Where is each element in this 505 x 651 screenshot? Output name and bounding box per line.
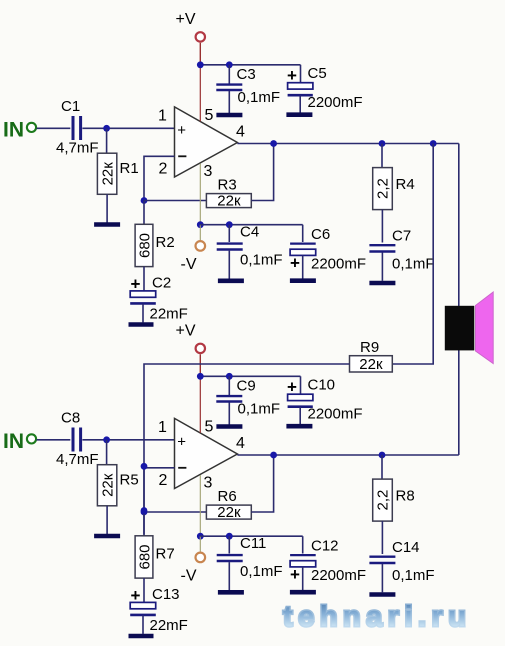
svg-text:R1: R1 [120,160,139,177]
svg-text:+V: +V [176,323,196,340]
svg-text:4,7mF: 4,7mF [56,140,99,157]
svg-text:-V: -V [181,568,197,585]
svg-text:C8: C8 [61,410,80,427]
svg-text:4: 4 [236,435,245,452]
svg-text:+: + [290,565,300,584]
svg-text:C1: C1 [61,98,80,115]
svg-text:4,7mF: 4,7mF [56,451,99,468]
svg-text:5: 5 [205,419,214,436]
svg-text:C4: C4 [240,224,259,241]
svg-text:C3: C3 [237,66,256,83]
svg-text:C10: C10 [308,376,336,393]
svg-text:C11: C11 [240,535,266,552]
svg-text:0,1mF: 0,1mF [238,89,281,106]
svg-text:0,1mF: 0,1mF [240,252,283,269]
svg-text:R2: R2 [156,234,175,251]
svg-text:tehnari.ru: tehnari.ru [283,601,467,633]
svg-text:R7: R7 [156,546,175,563]
svg-text:-V: -V [181,256,197,273]
svg-text:R8: R8 [396,488,415,505]
svg-text:2200mF: 2200mF [308,94,363,111]
svg-text:1: 1 [158,419,167,436]
svg-text:680: 680 [136,544,153,569]
svg-text:2,2: 2,2 [375,178,392,199]
svg-text:R5: R5 [120,472,139,489]
svg-text:22к: 22к [217,504,241,521]
svg-text:+: + [290,253,300,272]
svg-text:2200mF: 2200mF [311,567,366,584]
svg-text:680: 680 [136,233,153,258]
svg-text:IN: IN [3,430,24,453]
svg-text:C5: C5 [308,65,327,82]
svg-text:5: 5 [205,107,214,124]
svg-text:2,2: 2,2 [375,490,392,511]
svg-text:22к: 22к [359,356,383,373]
svg-text:0,1mF: 0,1mF [392,256,435,273]
svg-text:C2: C2 [152,275,171,292]
svg-text:C12: C12 [311,537,339,554]
svg-text:IN: IN [3,119,24,142]
svg-text:2200mF: 2200mF [308,405,363,422]
svg-text:22mF: 22mF [150,617,188,634]
svg-text:2: 2 [159,160,168,177]
svg-text:2200mF: 2200mF [311,255,366,272]
svg-text:3: 3 [204,163,213,180]
svg-text:+: + [177,122,186,139]
svg-text:C14: C14 [392,539,420,556]
svg-text:1: 1 [158,108,167,125]
svg-text:0,1mF: 0,1mF [238,400,281,417]
svg-text:C13: C13 [152,586,180,603]
svg-text:C6: C6 [311,226,330,243]
svg-text:R6: R6 [218,488,237,505]
svg-text:22к: 22к [217,193,241,210]
svg-text:0,1mF: 0,1mF [392,567,435,584]
svg-text:0,1mF: 0,1mF [240,563,283,580]
svg-text:C9: C9 [237,377,256,394]
svg-text:+V: +V [176,11,196,28]
svg-text:4: 4 [236,124,245,141]
svg-text:22mF: 22mF [150,306,188,323]
svg-text:R4: R4 [396,176,415,193]
svg-text:R3: R3 [218,177,237,194]
svg-text:3: 3 [204,474,213,491]
svg-text:2: 2 [159,472,168,489]
svg-text:22к: 22к [99,162,116,186]
svg-text:22к: 22к [99,473,116,497]
svg-text:R9: R9 [360,339,379,356]
svg-text:C7: C7 [392,228,411,245]
svg-text:+: + [177,434,186,451]
